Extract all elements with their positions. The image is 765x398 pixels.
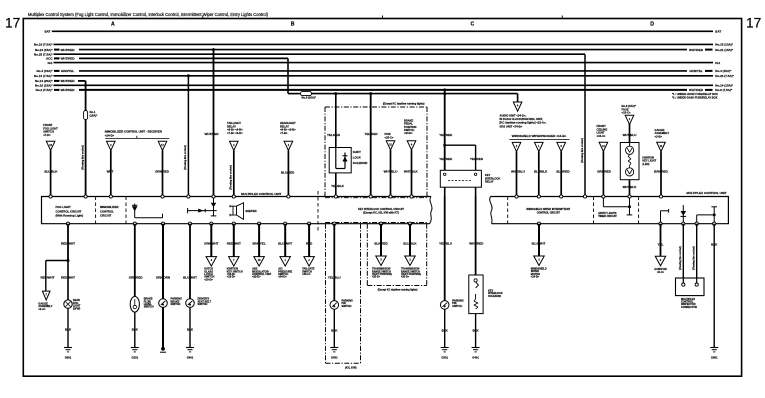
svg-text:GRN/YEL: GRN/YEL bbox=[61, 69, 75, 73]
svg-text:RED/WHT: RED/WHT bbox=[61, 276, 75, 280]
svg-text:No.4 (10A)*: No.4 (10A)* bbox=[36, 69, 53, 73]
svg-text:<9-C>: <9-C> bbox=[657, 270, 665, 274]
svg-text:(Flowing line socket): (Flowing line socket) bbox=[82, 145, 85, 170]
svg-text:G501: G501 bbox=[441, 356, 448, 360]
svg-text:<30-C>: <30-C> bbox=[302, 272, 311, 276]
wire GRN/RED bbox=[155, 151, 170, 197]
svg-text:(Flowing line socket): (Flowing line socket) bbox=[581, 138, 584, 163]
svg-text:GRN/RED: GRN/RED bbox=[155, 170, 170, 174]
svg-text:RED/WHT: RED/WHT bbox=[227, 241, 241, 245]
wire BRN/YEL abs modulator control unit bbox=[253, 224, 266, 257]
svg-text:A: A bbox=[111, 22, 115, 28]
wire GRN/WHT hatch glass latch switch bbox=[204, 224, 218, 257]
component front ceiling light bbox=[597, 124, 608, 138]
svg-text:BLK: BLK bbox=[442, 329, 449, 333]
svg-text:(Flowing line socket): (Flowing line socket) bbox=[679, 246, 682, 270]
multiplex control unit box left bbox=[42, 192, 433, 224]
svg-text:BAT: BAT bbox=[44, 30, 50, 34]
mcu label immobilizer circuit bbox=[100, 205, 119, 217]
label gauge assembly bottom bbox=[38, 301, 52, 310]
svg-text:WHT/RED: WHT/RED bbox=[61, 79, 76, 83]
svg-text:BLK: BLK bbox=[65, 328, 72, 332]
ground G201 bbox=[131, 348, 139, 360]
wire YEL/BLU parking pin 2 bbox=[439, 197, 452, 301]
svg-text:SWITCH: SWITCH bbox=[452, 305, 462, 308]
svg-text:SWITCH: SWITCH bbox=[198, 303, 208, 306]
section letter D bbox=[650, 22, 654, 28]
wire GRN/RED ceiling bbox=[597, 151, 612, 196]
svg-text:YEL/RED: YEL/RED bbox=[439, 157, 453, 161]
bus wire fuse No.14 WHT/RED bbox=[35, 79, 86, 83]
component windshield wiper washer bbox=[509, 134, 569, 139]
component drivers seat belt switch bbox=[186, 298, 212, 308]
svg-text:<16-D>: <16-D> bbox=[204, 277, 213, 281]
label flowing socket 6 bbox=[693, 246, 696, 270]
mcu trace T bbox=[661, 209, 669, 224]
section tick A-B bbox=[202, 16, 204, 19]
svg-text:YEL/BLK: YEL/BLK bbox=[331, 184, 345, 188]
svg-text:WHT/RED: WHT/RED bbox=[205, 132, 220, 136]
wire BLU/BLK wiper bbox=[534, 152, 548, 197]
bus wire fuse No.18 bbox=[34, 43, 734, 47]
svg-text:GRN/RED: GRN/RED bbox=[129, 276, 144, 280]
section tick B-C bbox=[382, 16, 384, 19]
ground G501 parking pin 1 bbox=[330, 348, 338, 360]
label ecm pcm bbox=[654, 267, 666, 274]
wire ACC feed elbow bbox=[288, 58, 518, 93]
svg-text:LOCK: LOCK bbox=[353, 156, 361, 160]
svg-text:(With Running Light): (With Running Light) bbox=[56, 214, 84, 218]
wire fuse No.1 feed bbox=[85, 81, 87, 197]
svg-text:No.16 (15A)*: No.16 (15A)* bbox=[35, 84, 54, 88]
component ignition key light bbox=[620, 143, 656, 180]
mcu diode circuit 2 bbox=[188, 197, 217, 216]
svg-text:<7-B>: <7-B> bbox=[280, 131, 288, 135]
mcu label key interlock circuit bbox=[358, 207, 404, 214]
svg-text:<34-C>: <34-C> bbox=[597, 134, 606, 138]
svg-text:YEL/BLU: YEL/BLU bbox=[439, 241, 452, 245]
svg-text:IN DASH CLOCK/BGM MDL UNIT,: IN DASH CLOCK/BGM MDL UNIT, bbox=[500, 117, 544, 121]
component multiplex inspector connector bbox=[676, 278, 705, 309]
svg-text:RED: RED bbox=[306, 241, 313, 245]
wire BRN/RED gauge bbox=[654, 151, 669, 196]
svg-text:No.14 (15A)*: No.14 (15A)* bbox=[715, 84, 734, 88]
svg-text:D: D bbox=[650, 22, 654, 28]
variant dash-dot box transmission bbox=[367, 224, 426, 292]
wire RED/WHT to rear fog bbox=[61, 261, 75, 301]
ground G501 parking pin 2 bbox=[441, 348, 449, 360]
svg-text:BLK: BLK bbox=[473, 329, 480, 333]
svg-text:*1 : UNDER-HOOD FUSE/RELAY BOX: *1 : UNDER-HOOD FUSE/RELAY BOX bbox=[672, 92, 718, 96]
svg-text:TIMER CIRCUIT: TIMER CIRCUIT bbox=[598, 215, 617, 218]
component immobilizer control unit bbox=[105, 129, 170, 138]
svg-text:<7-D>: <7-D> bbox=[43, 133, 51, 137]
wire relay outputs bbox=[445, 187, 476, 196]
wire taillight relay bbox=[233, 151, 235, 197]
svg-text:BRN/RED: BRN/RED bbox=[654, 170, 669, 174]
svg-text:(Except KC daytime running lig: (Except KC daytime running lights) bbox=[378, 289, 418, 292]
svg-text:WHT/BLU: WHT/BLU bbox=[623, 133, 637, 137]
multiplex control unit box right bbox=[490, 191, 729, 224]
svg-text:<20-D>: <20-D> bbox=[372, 276, 381, 279]
svg-text:CONTROL CIRCUIT: CONTROL CIRCUIT bbox=[537, 212, 561, 215]
svg-text:WINDSHIELD WIPER/WASHER <14-B>: WINDSHIELD WIPER/WASHER <14-B> bbox=[512, 134, 567, 138]
wire BLK rear fog bbox=[65, 308, 72, 347]
connector tailgate switch bbox=[304, 257, 315, 267]
connector headlight relay bbox=[284, 141, 293, 150]
page number left bbox=[5, 16, 20, 31]
svg-text:BLK/RED: BLK/RED bbox=[374, 241, 388, 245]
wire WHT bbox=[107, 151, 114, 197]
component PCM bbox=[385, 132, 394, 139]
connector wiper pin 6 bbox=[557, 142, 566, 151]
svg-text:(Except KC, KB, KW with KT): (Except KC, KB, KW with KT) bbox=[363, 210, 399, 214]
ground G401 solenoid bbox=[472, 348, 480, 360]
variant dash-dot box upper bbox=[325, 103, 427, 224]
svg-text:<2-A>: <2-A> bbox=[38, 307, 46, 311]
svg-text:G501: G501 bbox=[331, 356, 338, 360]
section tick C-D bbox=[561, 16, 563, 19]
svg-text:No.20 (7.5A)*: No.20 (7.5A)* bbox=[715, 74, 734, 78]
svg-text:WHT: WHT bbox=[107, 170, 114, 174]
svg-text:<24-D>: <24-D> bbox=[404, 131, 413, 135]
label flowing socket 2 bbox=[184, 145, 187, 170]
component key interlock relay bbox=[440, 170, 500, 187]
wire YEL ecm bbox=[658, 224, 664, 257]
wire BLK parking pin 2 bbox=[442, 309, 449, 347]
label abs modulator control unit bbox=[252, 267, 272, 279]
svg-text:Multiplex Control System (Fog: Multiplex Control System (Fog Light Cont… bbox=[28, 12, 269, 17]
wire GRN/RED brake fluid bbox=[129, 224, 144, 297]
svg-text:(Except KC daytime running lig: (Except KC daytime running lights) bbox=[383, 103, 425, 106]
svg-text:No.24 (15A)*: No.24 (15A)* bbox=[35, 48, 54, 52]
wire BLK parking pin 1 bbox=[331, 309, 338, 347]
connector audio unit bbox=[513, 102, 522, 111]
bus wire fuse No.2 WHT/RED bbox=[36, 88, 733, 92]
svg-text:No.15 (10A)*: No.15 (10A)* bbox=[715, 43, 734, 47]
component headlight relay bbox=[280, 121, 296, 135]
svg-text:<20-D>: <20-D> bbox=[401, 276, 410, 279]
wire relay branch YEL/RED bbox=[445, 145, 484, 170]
wire WHT/RED solenoid bbox=[469, 197, 484, 276]
svg-text:MULTIPLEX CONTROL UNIT: MULTIPLEX CONTROL UNIT bbox=[686, 191, 726, 195]
svg-text:WHT/BLK: WHT/BLK bbox=[404, 170, 419, 174]
svg-text:MULTIPLEX CONTROL UNIT: MULTIPLEX CONTROL UNIT bbox=[241, 192, 281, 196]
wire RED/WHT branch bbox=[41, 261, 69, 292]
wire WHT/BLK brake pedal bbox=[404, 150, 419, 197]
connector taillight relay bbox=[230, 141, 239, 150]
svg-text:GRN/RED: GRN/RED bbox=[597, 170, 612, 174]
section letter C bbox=[471, 22, 475, 28]
wire RED tailgate switch bbox=[306, 224, 313, 257]
footnote under-hood bbox=[672, 92, 718, 96]
wire BLK right ground bbox=[711, 224, 718, 348]
connector gauge assembly top bbox=[657, 142, 666, 151]
svg-text:SOLENOID: SOLENOID bbox=[488, 295, 501, 298]
bus wire ACC WHT/RED bbox=[46, 57, 288, 61]
svg-text:*2 : UNDER-DASH FUSE/RELAY BOX: *2 : UNDER-DASH FUSE/RELAY BOX bbox=[672, 95, 718, 99]
wire YEL/BLU parking pin 1 bbox=[328, 224, 341, 301]
wire BLK brake fluid bbox=[132, 312, 139, 347]
svg-text:<2-B>: <2-B> bbox=[655, 134, 663, 138]
svg-text:(LED): (LED) bbox=[642, 162, 649, 166]
mcu variant edge overlay bbox=[325, 198, 428, 223]
connector immobilizer pin 4 bbox=[107, 141, 116, 150]
component gauge assembly top bbox=[655, 128, 670, 139]
label ignition key switch bbox=[227, 267, 243, 279]
wire shift lock feed YEL/RED bbox=[327, 92, 341, 147]
wire BLK solenoid bbox=[473, 314, 480, 348]
svg-text:WHT/BLU: WHT/BLU bbox=[511, 170, 525, 174]
ground G801 bbox=[710, 348, 718, 360]
component key interlock solenoid bbox=[469, 275, 503, 314]
svg-text:IG1: IG1 bbox=[48, 61, 53, 65]
component parking pin switch 1 bbox=[330, 299, 353, 309]
label transmission 2 bbox=[401, 268, 421, 279]
component taillight relay bbox=[227, 121, 243, 135]
bus wire fuse No.25 bbox=[34, 53, 585, 57]
svg-text:BLU/BLK: BLU/BLK bbox=[403, 241, 417, 245]
bus wire fuse No.10 bbox=[34, 74, 735, 78]
connector ac pressure switch bbox=[280, 257, 291, 267]
mcu divider 6 bbox=[638, 197, 640, 224]
svg-text:<7-B> <9-D>: <7-B> <9-D> bbox=[227, 131, 243, 135]
wire feed WHT/RED bbox=[205, 48, 220, 196]
svg-text:G201: G201 bbox=[132, 356, 139, 360]
label flowing socket 3 bbox=[581, 138, 584, 163]
connector brake pedal position switch bbox=[407, 141, 416, 150]
ground G401 seat belt bbox=[186, 348, 194, 360]
svg-text:CIRCUIT: CIRCUIT bbox=[100, 214, 112, 218]
wire WHT/BLU pcm bbox=[384, 150, 398, 197]
svg-text:GRN/YEL: GRN/YEL bbox=[689, 69, 703, 73]
wire inspector 2 bbox=[696, 224, 698, 283]
mcu label wiper intermittent circuit bbox=[526, 208, 570, 214]
wire audio unit tap bbox=[517, 94, 519, 102]
svg-text:(DFW): (DFW) bbox=[73, 307, 81, 310]
svg-text:<24-D>: <24-D> bbox=[105, 133, 115, 137]
wire WHT/BLU fuse8 bbox=[623, 124, 637, 143]
svg-text:BLK: BLK bbox=[132, 328, 139, 332]
component rear fog light bbox=[64, 299, 81, 310]
svg-text:B: B bbox=[291, 22, 295, 28]
component brake fluid level switch bbox=[130, 297, 154, 313]
wire parking brake ground bbox=[162, 307, 164, 347]
svg-text:BLU/RED: BLU/RED bbox=[556, 170, 570, 174]
mcu diode circuit 1 bbox=[132, 204, 163, 218]
connector abs modulator control unit bbox=[254, 257, 265, 267]
svg-text:<15-C>: <15-C> bbox=[622, 111, 631, 115]
wire inspector 1 bbox=[682, 224, 684, 283]
svg-text:G601: G601 bbox=[65, 356, 72, 360]
svg-text:WHT/RED: WHT/RED bbox=[469, 241, 484, 245]
section letter B bbox=[291, 22, 295, 28]
wire BLU/WHT wiper motor bbox=[532, 224, 546, 256]
page number right bbox=[746, 16, 761, 31]
mcu label fog light circuit bbox=[56, 205, 84, 217]
wire shift lock feed 2 YEL/RED bbox=[364, 92, 378, 196]
wire BLU/WHT seat belt bbox=[183, 224, 197, 299]
svg-text:RELAY: RELAY bbox=[485, 180, 494, 184]
svg-text:BLU/RED: BLU/RED bbox=[281, 171, 295, 175]
variant dash-dot box KX KW bbox=[326, 224, 361, 370]
svg-text:YEL/RED: YEL/RED bbox=[327, 133, 341, 137]
mcu diode right bbox=[681, 205, 687, 224]
connector PCM bbox=[386, 141, 395, 150]
svg-text:No.14 (20A)*: No.14 (20A)* bbox=[35, 79, 54, 83]
svg-text:BLU/WHT: BLU/WHT bbox=[183, 276, 197, 280]
connector gauge assembly bottom bbox=[42, 291, 50, 300]
mcu divider 2 bbox=[125, 197, 127, 224]
svg-text:No.4 (15A)*: No.4 (15A)* bbox=[715, 69, 732, 73]
ground G601 bbox=[64, 348, 72, 360]
svg-text:YEL/RED: YEL/RED bbox=[439, 133, 453, 137]
connector wiper pin 1 bbox=[535, 142, 544, 151]
svg-text:BEEPER: BEEPER bbox=[246, 209, 257, 213]
svg-text:CONNECTOR: CONNECTOR bbox=[681, 306, 697, 309]
svg-text:SHIFT: SHIFT bbox=[353, 150, 361, 154]
wire YEL/BLK bbox=[331, 173, 345, 197]
component front fog light switch bbox=[43, 123, 58, 137]
svg-text:No.2 (7.5A)*: No.2 (7.5A)* bbox=[36, 88, 54, 92]
mcu divider 1 bbox=[95, 197, 97, 224]
svg-text:No.1: No.1 bbox=[90, 110, 96, 114]
mcu trace L bbox=[697, 207, 717, 224]
svg-text:No.9 (7.5A)*: No.9 (7.5A)* bbox=[715, 88, 733, 92]
svg-text:(Flowing line socket): (Flowing line socket) bbox=[184, 145, 187, 170]
svg-text:<22-D>: <22-D> bbox=[252, 275, 261, 279]
svg-text:BAT: BAT bbox=[715, 30, 721, 34]
component parking brake switch bbox=[159, 298, 182, 308]
label audio unit block bbox=[500, 113, 547, 128]
svg-text:YEL/RED: YEL/RED bbox=[364, 132, 378, 136]
mcu entry lights trace bbox=[603, 197, 632, 215]
svg-text:G401: G401 bbox=[472, 356, 479, 360]
wire WHT/BLU wiper bbox=[511, 152, 525, 197]
connector ecm pcm bbox=[655, 256, 666, 266]
svg-text:G401: G401 bbox=[187, 356, 194, 360]
bus wire fuse No.24 WHT/RED bbox=[35, 48, 734, 52]
wire BLK/RED transmission 1 bbox=[374, 224, 388, 256]
svg-text:BLK: BLK bbox=[711, 242, 718, 246]
wire BLU/WHT ac pressure switch bbox=[278, 224, 292, 257]
connector transmission 1 bbox=[376, 256, 387, 266]
svg-text:BLK: BLK bbox=[331, 329, 338, 333]
wire feed B bbox=[187, 74, 190, 196]
svg-text:RED/WHT: RED/WHT bbox=[41, 276, 55, 280]
bus wire fuse No.16 bbox=[35, 84, 734, 88]
wire BLK seat belt bbox=[187, 307, 194, 347]
wire RED/WHT main bbox=[61, 224, 75, 262]
wire WHT/BLK key light bbox=[623, 180, 638, 197]
wire key interlock feed YEL/RED bbox=[439, 88, 453, 170]
component brake pedal position switch bbox=[404, 119, 417, 136]
svg-text:WHT/BLK: WHT/BLK bbox=[623, 185, 638, 189]
svg-text:(Flowing line socket): (Flowing line socket) bbox=[230, 165, 233, 190]
mcu divider 5 bbox=[593, 197, 595, 224]
wire BLU/RED wiper bbox=[556, 152, 570, 197]
mcu divider 3 bbox=[317, 191, 319, 232]
mcu divider 4 bbox=[507, 197, 509, 224]
svg-text:<25-C>: <25-C> bbox=[385, 135, 394, 139]
connector front ceiling light bbox=[599, 142, 608, 151]
svg-text:RED/WHT: RED/WHT bbox=[61, 241, 75, 245]
svg-text:WHT/RED: WHT/RED bbox=[61, 88, 76, 92]
connector front fog light switch bbox=[46, 141, 55, 150]
wire BLU/BLK bbox=[44, 151, 58, 197]
svg-text:(Flowing line socket): (Flowing line socket) bbox=[693, 246, 696, 270]
svg-text:SRS UNIT <74-B>: SRS UNIT <74-B> bbox=[500, 124, 523, 128]
fuse No.1 (15A) bbox=[84, 110, 99, 119]
label wiper motor bbox=[531, 267, 547, 278]
wire BLU/BLK transmission 2 bbox=[403, 224, 417, 256]
svg-text:IG1: IG1 bbox=[715, 61, 720, 65]
svg-text:17: 17 bbox=[746, 16, 761, 31]
svg-text:(KX, KW): (KX, KW) bbox=[345, 366, 357, 370]
component shift lock solenoid bbox=[329, 148, 367, 173]
svg-text:(15A)*: (15A)* bbox=[90, 114, 99, 118]
svg-text:<18-D>: <18-D> bbox=[227, 275, 236, 279]
svg-text:<24-D>: <24-D> bbox=[278, 275, 287, 279]
svg-text:SWITCH: SWITCH bbox=[342, 305, 352, 308]
label tailgate switch bbox=[302, 267, 315, 276]
svg-text:<14-B>: <14-B> bbox=[531, 276, 540, 279]
bus wire BAT bbox=[44, 30, 721, 34]
mcu bottom pins bbox=[66, 222, 715, 225]
mcu top pins bbox=[49, 195, 663, 198]
svg-text:WHT/RED: WHT/RED bbox=[61, 57, 76, 61]
wire RED/WHT ignition key switch bbox=[227, 224, 241, 257]
section letter A bbox=[111, 22, 115, 28]
svg-text:BLK: BLK bbox=[187, 328, 194, 332]
svg-text:WHT/RED: WHT/RED bbox=[689, 88, 704, 92]
chassis ground parking brake bbox=[160, 347, 166, 352]
svg-text:[KC daytime running lights] <2: [KC daytime running lights] <22-A>, bbox=[500, 121, 547, 125]
svg-text:SWITCH: SWITCH bbox=[144, 306, 154, 309]
bus wire IG1 bbox=[48, 61, 721, 65]
connector wiper motor bbox=[534, 256, 545, 266]
fuse No.8 (20A) bbox=[301, 92, 317, 100]
wire BLU/RED bbox=[281, 151, 295, 197]
svg-text:YEL: YEL bbox=[658, 242, 664, 246]
svg-text:No.21 (15A)*: No.21 (15A)* bbox=[715, 48, 734, 52]
svg-text:AUDIO UNIT <34-D>,: AUDIO UNIT <34-D>, bbox=[500, 113, 527, 117]
svg-text:BLU/WHT: BLU/WHT bbox=[532, 241, 546, 245]
svg-text:BLU/WHT: BLU/WHT bbox=[278, 241, 292, 245]
footnote under-dash bbox=[672, 95, 718, 99]
svg-text:No.8 (20A)*: No.8 (20A)* bbox=[302, 96, 317, 100]
svg-text:KEY INTERLOCK CONTROL CIRCUIT: KEY INTERLOCK CONTROL CIRCUIT bbox=[358, 207, 404, 211]
mcu label entry lights circuit bbox=[598, 212, 617, 218]
svg-text:G801: G801 bbox=[711, 356, 718, 360]
svg-text:17: 17 bbox=[5, 16, 20, 31]
mcu beeper bbox=[230, 203, 257, 220]
svg-text:WHT/RED: WHT/RED bbox=[61, 48, 76, 52]
svg-text:WHT/RED: WHT/RED bbox=[689, 48, 704, 52]
svg-text:BLU/BLK: BLU/BLK bbox=[534, 170, 548, 174]
label transmission 1 bbox=[372, 268, 392, 279]
connector hatch glass latch switch bbox=[206, 257, 217, 267]
label flowing socket 1 bbox=[82, 145, 85, 170]
svg-text:No.18 (7.5A)*: No.18 (7.5A)* bbox=[34, 43, 53, 47]
svg-text:YEL/RED: YEL/RED bbox=[470, 157, 484, 161]
svg-text:YEL/BLU: YEL/BLU bbox=[328, 276, 341, 280]
connector immobilizer pin 17 bbox=[158, 141, 167, 150]
svg-text:GRN/ORN: GRN/ORN bbox=[156, 276, 170, 280]
svg-text:No.10 (7.5A)*: No.10 (7.5A)* bbox=[34, 74, 53, 78]
connector fuse No.8 bbox=[625, 115, 634, 124]
label ac pressure switch bbox=[278, 267, 292, 279]
